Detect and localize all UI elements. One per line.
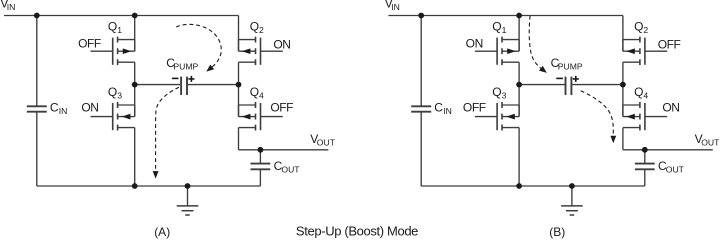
capacitor CPUMP <box>566 77 572 95</box>
wire: Q2 source to node B1 <box>238 62 240 84</box>
circuit state B <box>385 0 720 215</box>
node A1 (Q1/Q3/CPUMP-) <box>132 82 138 88</box>
capacitor CIN <box>27 106 47 111</box>
body stub <box>623 50 640 52</box>
svg-text:Q: Q <box>492 85 501 99</box>
wire: VOUT rail <box>239 149 329 151</box>
wire: node A1 to Q3 body <box>518 85 520 117</box>
svg-text:Q: Q <box>108 85 117 99</box>
wire: VOUT node down to COUT <box>644 150 646 164</box>
body stub <box>502 116 519 118</box>
dashed current arrow: CPUMP + through Q4 to VOUT <box>581 91 614 136</box>
channel segments <box>501 37 503 66</box>
svg-text:(A): (A) <box>154 225 170 239</box>
wire: Q2 drain from top rail corner <box>238 16 240 52</box>
svg-text:OFF: OFF <box>78 36 101 50</box>
node: Q1 top junction <box>516 13 522 19</box>
wire: top rail VIN, circuit B <box>388 15 623 17</box>
CPUMP minus sign <box>556 77 563 79</box>
wire: COUT to ground rail <box>259 169 261 186</box>
node B1 (Q2/Q4/CPUMP+) <box>620 82 626 88</box>
wire: VOUT node down to COUT <box>259 150 261 164</box>
node: ground junction <box>569 183 575 189</box>
svg-text:ON: ON <box>466 36 483 50</box>
source stub <box>239 127 256 129</box>
svg-text:4: 4 <box>259 90 264 100</box>
svg-text:OFF: OFF <box>658 38 681 52</box>
transistor Q1 <box>91 37 135 66</box>
body stub <box>118 50 135 52</box>
dashed current arrow: CPUMP - down to ground <box>156 87 179 171</box>
source stub <box>118 127 135 129</box>
dashed current arrow: top loop (VIN through Q2 into CPUMP +) <box>176 24 221 67</box>
svg-text:IN: IN <box>391 2 400 12</box>
svg-text:2: 2 <box>259 25 264 35</box>
body arrow <box>242 114 251 120</box>
wire: left vertical to CIN top <box>36 16 38 107</box>
wire: COUT to ground rail <box>644 169 646 186</box>
wire: Q1 drain from top rail <box>518 16 520 52</box>
transistor Q4 <box>239 102 283 131</box>
drain-body link <box>134 40 136 52</box>
gate bar <box>496 38 498 65</box>
svg-text:ON: ON <box>81 100 98 114</box>
channel segments <box>501 102 503 131</box>
dashed current arrow: VIN down through Q1 into CPUMP - <box>529 16 541 69</box>
channel segments <box>255 102 257 131</box>
svg-text:Q: Q <box>634 85 643 99</box>
body arrow <box>506 114 515 120</box>
svg-text:Q: Q <box>492 20 501 34</box>
svg-text:OUT: OUT <box>281 164 300 174</box>
svg-text:Step-Up (Boost) Mode: Step-Up (Boost) Mode <box>296 223 418 238</box>
drain-body link <box>238 40 240 52</box>
transistor Q4 <box>623 102 667 131</box>
gate lead <box>475 116 497 118</box>
svg-text:IN: IN <box>443 106 452 116</box>
wire: Q2 drain from top rail corner <box>622 16 624 52</box>
svg-text:OUT: OUT <box>317 138 336 148</box>
wire: Q3 source to ground rail <box>518 128 520 186</box>
node: VIN junction <box>418 13 424 19</box>
gate bar <box>112 38 114 65</box>
svg-text:PUMP: PUMP <box>173 61 198 71</box>
wire: node B1 to Q4 body <box>238 85 240 117</box>
channel segments <box>639 37 641 66</box>
drain-body link <box>518 105 520 117</box>
wire: pump node right <box>572 84 623 86</box>
gate bar <box>496 103 498 130</box>
svg-text:OUT: OUT <box>666 164 685 174</box>
node: VIN junction <box>34 13 40 19</box>
transistor Q1 <box>475 37 519 66</box>
source stub <box>623 127 640 129</box>
transistor Q3 <box>91 102 135 131</box>
transistor Q2 <box>239 37 283 66</box>
capacitor CPUMP <box>181 77 187 95</box>
node: Q3 source / ground rail <box>132 183 138 189</box>
channel segments <box>255 37 257 66</box>
node B1 (Q2/Q4/CPUMP+) <box>236 82 242 88</box>
svg-text:C: C <box>434 101 443 115</box>
node: ground junction <box>185 183 191 189</box>
svg-text:ON: ON <box>273 38 290 52</box>
wire: pump node left <box>519 84 565 86</box>
channel segments <box>117 102 119 131</box>
gate lead <box>91 50 113 52</box>
drain-body link <box>134 105 136 117</box>
wire: node B1 to Q4 body <box>622 85 624 117</box>
drain stub <box>502 39 519 41</box>
svg-text:Q: Q <box>250 20 259 34</box>
gate lead <box>261 116 283 118</box>
svg-text:3: 3 <box>117 90 122 100</box>
capacitor COUT <box>251 164 271 170</box>
body arrow <box>626 48 635 54</box>
gate bar <box>644 38 646 65</box>
body stub <box>623 116 640 118</box>
svg-text:OFF: OFF <box>463 100 486 114</box>
wire: Q1 source to node A1 <box>518 62 520 84</box>
drain stub <box>623 104 640 106</box>
svg-text:IN: IN <box>59 106 68 116</box>
body stub <box>118 116 135 118</box>
svg-text:OFF: OFF <box>270 100 293 114</box>
svg-text:Q: Q <box>634 20 643 34</box>
source stub <box>502 61 519 63</box>
svg-text:OUT: OUT <box>701 138 720 148</box>
wire: Q1 drain from top rail <box>134 16 136 52</box>
source stub <box>239 61 256 63</box>
capacitor COUT <box>635 164 655 170</box>
wire: VOUT rail <box>623 149 713 151</box>
node: Q3 source / ground rail <box>516 183 522 189</box>
drain-body link <box>622 105 624 117</box>
CPUMP minus sign <box>172 77 179 79</box>
gate bar <box>112 103 114 130</box>
svg-text:1: 1 <box>117 25 122 35</box>
body arrow <box>122 114 131 120</box>
circuit state A <box>0 0 335 215</box>
transistor Q3 <box>475 102 519 131</box>
source stub <box>623 61 640 63</box>
svg-text:ON: ON <box>662 100 679 114</box>
body stub <box>502 50 519 52</box>
gate lead <box>475 50 497 52</box>
capacitor CIN <box>411 106 431 111</box>
channel segments <box>639 102 641 131</box>
CPUMP plus sign <box>573 76 579 82</box>
drain-body link <box>238 105 240 117</box>
node A1 (Q1/Q3/CPUMP-) <box>516 82 522 88</box>
gate lead <box>645 50 667 52</box>
transistor Q2 <box>623 37 667 66</box>
wire: node A1 to Q3 body <box>134 85 136 117</box>
gate bar <box>260 38 262 65</box>
wire: Q3 source to ground rail <box>134 128 136 186</box>
svg-text:IN: IN <box>7 2 16 12</box>
wire: Q4 source to VOUT rail <box>238 128 240 150</box>
svg-text:Q: Q <box>108 20 117 34</box>
wire: Q2 source to node B1 <box>622 62 624 84</box>
svg-text:4: 4 <box>643 90 648 100</box>
body arrow <box>123 48 132 54</box>
ground symbol <box>187 186 189 206</box>
gate lead <box>91 116 113 118</box>
node: VOUT / COUT junction <box>642 147 648 153</box>
wire: bottom ground rail <box>37 185 261 187</box>
drain stub <box>118 39 135 41</box>
channel segments <box>117 37 119 66</box>
body arrow <box>507 48 516 54</box>
source stub <box>502 127 519 129</box>
drain stub <box>239 39 256 41</box>
CPUMP plus sign <box>188 76 194 82</box>
body stub <box>239 116 256 118</box>
svg-text:Q: Q <box>250 85 259 99</box>
svg-text:PUMP: PUMP <box>558 61 583 71</box>
drain stub <box>502 104 519 106</box>
wire: bottom ground rail <box>421 185 645 187</box>
drain-body link <box>622 40 624 52</box>
body stub <box>239 50 256 52</box>
gate lead <box>645 116 667 118</box>
wire: top rail VIN, circuit A <box>4 15 239 17</box>
wire: Q4 source to VOUT rail <box>622 128 624 150</box>
wire: Q1 source to node A1 <box>134 62 136 84</box>
gate lead <box>261 50 283 52</box>
svg-text:C: C <box>50 101 59 115</box>
node: VOUT / COUT junction <box>258 147 264 153</box>
drain stub <box>623 39 640 41</box>
body arrow <box>242 48 251 54</box>
ground symbol <box>571 186 573 206</box>
wire: CIN bottom to ground rail <box>36 112 38 186</box>
svg-text:2: 2 <box>643 25 648 35</box>
wire: pump node right <box>188 84 239 86</box>
drain stub <box>239 104 256 106</box>
svg-text:1: 1 <box>502 25 507 35</box>
body arrow <box>626 114 635 120</box>
wire: left vertical to CIN top <box>420 16 422 107</box>
svg-text:(B): (B) <box>549 225 565 239</box>
svg-text:3: 3 <box>502 90 507 100</box>
source stub <box>118 61 135 63</box>
node: Q1 top junction <box>132 13 138 19</box>
drain stub <box>118 104 135 106</box>
wire: pump node left <box>135 84 181 86</box>
wire: CIN bottom to ground rail <box>420 112 422 186</box>
gate bar <box>644 103 646 130</box>
gate bar <box>260 103 262 130</box>
drain-body link <box>518 40 520 52</box>
